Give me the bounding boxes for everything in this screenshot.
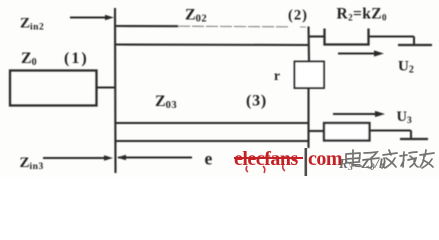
- wire: Z03 transmission line lower conductor: [116, 140, 308, 142]
- wire: Z03 transmission line upper conductor: [116, 122, 308, 124]
- arrowhead (left) of dimension line e: [117, 155, 126, 161]
- svg-text:(3): (3): [246, 93, 267, 110]
- arrowhead of Zin2 arrow: [105, 15, 114, 21]
- svg-text:Zin2: Zin2: [20, 16, 44, 33]
- U3 output arrow: [333, 111, 385, 117]
- svg-text:(1): (1): [64, 50, 89, 67]
- char 4 烧: [400, 152, 418, 167]
- wire: lead from R3 to output step: [370, 129, 412, 131]
- wire: output 3 termination bar: [400, 138, 428, 140]
- wire: Z02 transmission line lower conductor: [116, 43, 308, 46]
- wire: lead from port 2 into resistor R2: [309, 35, 324, 37]
- svg-text:R2=kZ0: R2=kZ0: [337, 6, 388, 23]
- wire: lead from R2 to output step: [369, 35, 414, 37]
- svg-text:Z03: Z03: [155, 93, 177, 111]
- svg-text:R3=Z0/k: R3=Z0/k: [338, 156, 386, 172]
- resistor R2 (open-top box): [325, 29, 369, 45]
- wire: connector from source box to reference plane: [97, 86, 116, 88]
- wire: Z02 transmission line upper conductor (solid part): [116, 25, 178, 27]
- wire: input reference-plane vertical line: [114, 8, 117, 173]
- char 5 友: [420, 150, 434, 168]
- resistor R3 box: [324, 123, 370, 141]
- watermark: red strike line: [234, 157, 303, 159]
- watermark: Chinese brush characters 电子发烧友 (approximated strokes): [346, 150, 434, 168]
- resistor r (bridge resistor box): [295, 62, 325, 89]
- wire: vertical from resistor r down through Z03 to dimension tick: [307, 88, 309, 148]
- watermark: dark divider bar: [304, 148, 307, 176]
- arrowhead of Zin3 arrow: [104, 155, 113, 161]
- wire: Z02 upper conductor end tick: [300, 26, 306, 28]
- wire: dimension line for length e: [118, 156, 192, 158]
- wire: Zin2 arrow shaft: [70, 16, 108, 18]
- U2 output arrow: [338, 50, 384, 56]
- svg-text:Z02: Z02: [185, 7, 207, 25]
- wire: Zin3 arrow shaft: [43, 157, 107, 159]
- wire: output 2 termination bar: [398, 44, 432, 46]
- wire: port-2 plane vertical from Z02 down to resistor r: [307, 27, 310, 62]
- char 1 电: [346, 150, 361, 166]
- watermark: red drip marks under elecfans: [246, 165, 285, 173]
- wire: step down at output 2: [413, 37, 415, 45]
- char 2 子: [363, 152, 379, 168]
- svg-text:Zin3: Zin3: [20, 155, 44, 172]
- svg-text:Z0: Z0: [21, 50, 37, 68]
- source impedance box Z0: [10, 71, 97, 106]
- svg-text:com: com: [308, 148, 343, 170]
- wire: lead from port 3 into resistor R3: [309, 130, 324, 132]
- svg-text:r: r: [274, 68, 280, 83]
- char 3 发: [382, 150, 397, 168]
- wire: Z02 upper conductor faint continuation: [178, 25, 288, 28]
- svg-text:U2: U2: [398, 59, 414, 76]
- svg-text:e: e: [205, 149, 213, 169]
- svg-text:U3: U3: [397, 109, 412, 126]
- wire: step down at output 3: [410, 131, 412, 139]
- svg-text:(2): (2): [288, 8, 308, 24]
